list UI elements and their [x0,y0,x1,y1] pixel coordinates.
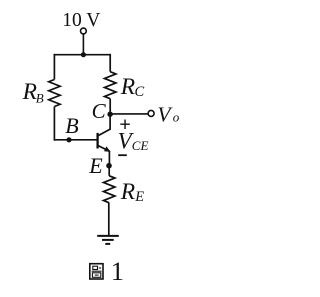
svg-text:CE: CE [132,138,149,153]
node E dot [106,163,112,169]
svg-text:E: E [134,189,144,205]
svg-text:B: B [36,90,44,105]
supply terminal circle [81,28,87,34]
svg-text:E: E [88,153,103,178]
wire base [54,139,98,141]
wire top rail [54,54,111,56]
svg-text:R: R [120,179,135,205]
wire right branch upper (top rail to RC) [109,54,111,72]
transistor Q1 emitter arrowhead [104,146,111,152]
wire collector (node C to transistor) [109,114,111,130]
node C dot [107,112,112,117]
minus sign below VCE [118,154,127,156]
wire left branch lower [53,107,55,141]
svg-text:o: o [173,110,180,125]
ground bar 2 [102,239,114,241]
svg-text:C: C [92,99,107,123]
node B dot [66,137,71,142]
svg-text:R: R [120,74,135,100]
junction dot on top rail [81,52,86,57]
wire emitter (transistor to node E) [108,151,110,166]
output terminal circle [148,110,154,116]
resistor RB [49,80,60,107]
resistor RC [105,72,116,99]
svg-text:B: B [65,113,78,138]
wire RC to node C [109,99,111,115]
wire RE to ground [108,203,110,235]
transistor Q1 base bar [96,133,98,149]
transistor Q1 collector diagonal [98,129,110,135]
ground bar 3 [105,243,110,245]
wire node E to RE [108,166,110,176]
caption character 圖 (drawn) [90,264,103,279]
wire output [110,113,148,115]
resistor RE [104,176,115,203]
wire supply terminal to top rail [82,34,84,55]
svg-text:R: R [22,79,37,105]
svg-text:C: C [135,84,145,100]
wire left branch upper [53,54,55,80]
ground bar 1 [97,235,119,237]
transistor Q1 emitter diagonal [98,146,109,152]
svg-text:10 V: 10 V [62,9,100,31]
plus sign above VCE [120,120,130,130]
svg-text:1: 1 [111,256,124,286]
